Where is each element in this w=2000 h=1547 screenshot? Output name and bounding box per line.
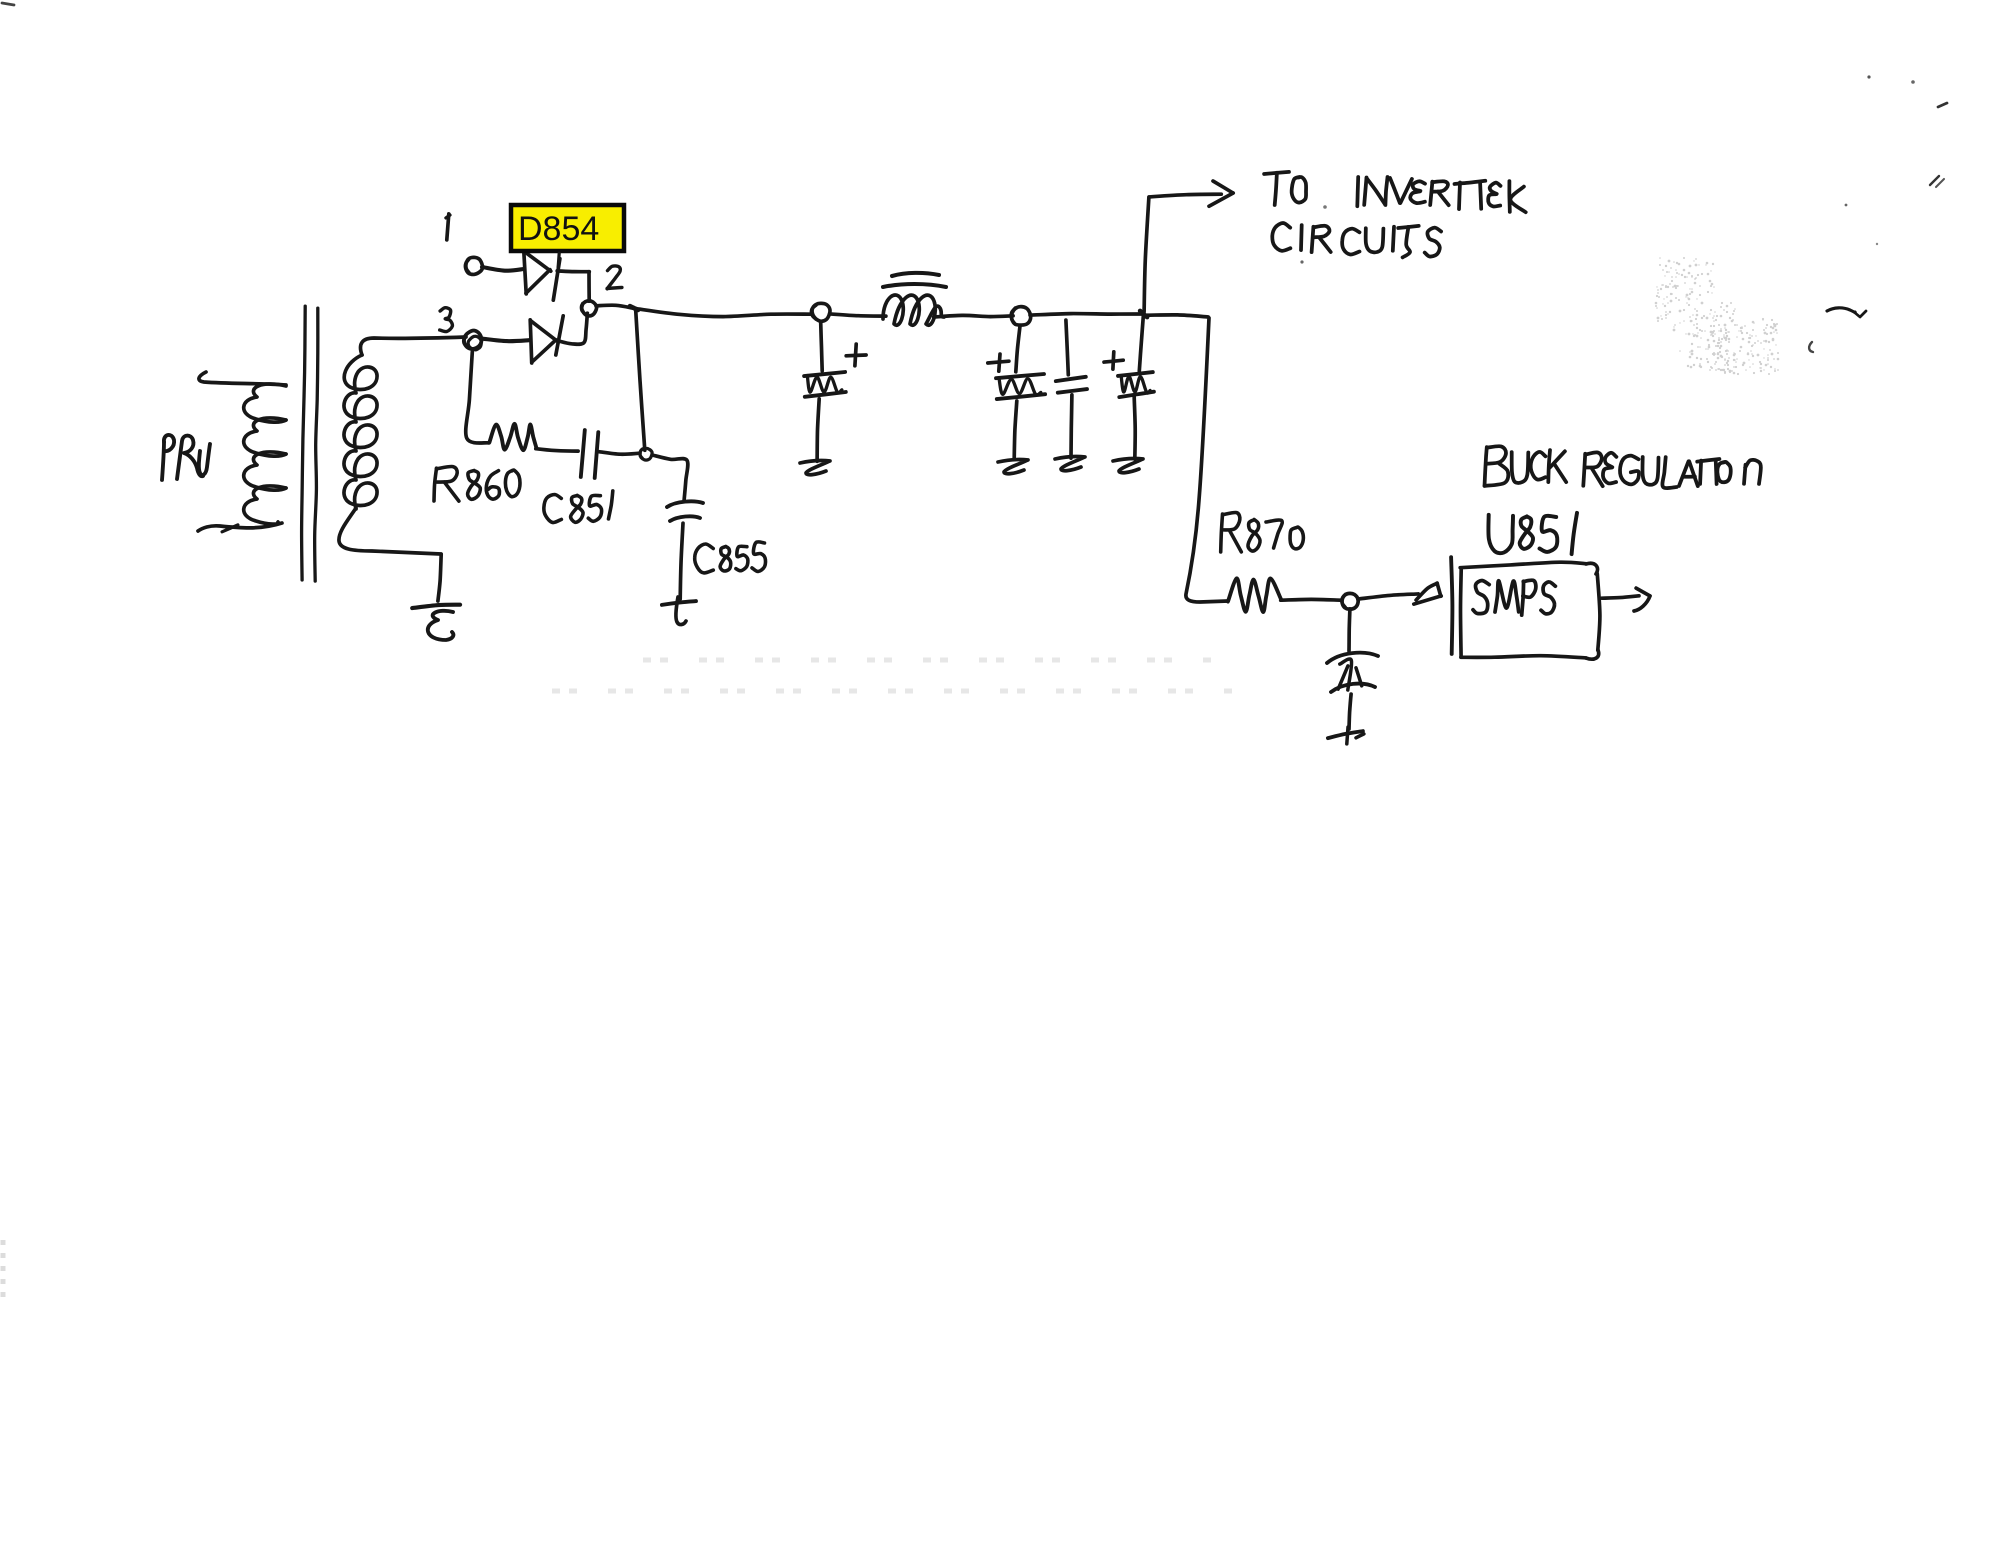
node B (C851/C855 tap)	[640, 448, 652, 460]
label D854 (highlighted)	[511, 205, 624, 251]
arrow (U851 output)	[1634, 588, 1650, 611]
ground (capacitor 3)	[1055, 457, 1085, 471]
arrow (to inverter circuits)	[1209, 181, 1233, 206]
junction E (inverter tap)	[1140, 311, 1147, 317]
ground (C855)	[662, 597, 696, 625]
wire inverter arrow horizontal	[1149, 194, 1221, 197]
wire junction E to corner	[1147, 315, 1208, 317]
wire diode lower out up to node 2	[558, 313, 588, 344]
wire capacitor 1 to ground	[817, 399, 819, 462]
wire node D down to capacitor 2	[1016, 326, 1020, 372]
wire junction E down to capacitor 4	[1139, 316, 1143, 371]
label PRI	[162, 435, 210, 480]
resistor R870	[1228, 578, 1281, 612]
ground (capacitor 2)	[998, 460, 1028, 474]
scan artifact dashed row 2	[552, 689, 1238, 694]
ground (capacitor 5)	[1328, 727, 1364, 744]
node 2 (terminal circle)	[582, 301, 597, 316]
diode D854 upper (triangle)	[524, 251, 551, 294]
wire node F to U851 arrow	[1358, 594, 1418, 599]
capacitor C855	[667, 501, 703, 521]
arrow (into U851)	[1414, 583, 1441, 604]
polarity + (capacitor 2)	[988, 354, 1009, 371]
junction A (bus tap)	[630, 306, 638, 310]
label TO INVERTER	[1264, 172, 1526, 212]
wire node C down to capacitor 1	[821, 322, 823, 371]
wire capacitor 4 to ground	[1134, 397, 1135, 459]
block U851 input bar	[1451, 557, 1452, 654]
label 2 (node 2)	[607, 266, 622, 289]
node F (U851 input)	[1342, 593, 1358, 609]
transformer primary winding	[198, 372, 286, 532]
wire node D to junction E	[1030, 314, 1143, 316]
pin label 3	[440, 308, 453, 332]
diode D854 upper (anode wire)	[482, 267, 524, 271]
wire R860 to C851	[536, 449, 578, 451]
diode D854 lower (triangle)	[530, 320, 557, 363]
transformer secondary winding	[339, 337, 466, 601]
wire node 3 down to R860	[466, 352, 489, 443]
capacitor 1 (electrolytic)	[804, 372, 846, 397]
scan artifact dashed row 1	[643, 658, 1218, 663]
wire inductor to node D	[934, 315, 1013, 317]
polarity + (capacitor 4)	[1104, 352, 1123, 369]
diode D854 lower (cathode bar)	[556, 316, 563, 355]
scan artifact speckle patch	[1655, 257, 1780, 375]
node 3 (terminal circle)	[464, 330, 482, 349]
pin label 1	[446, 214, 450, 240]
wire R870 to node F	[1281, 598, 1342, 602]
node 1 (terminal circle)	[465, 257, 482, 274]
label C855	[695, 542, 766, 573]
wire bus junction to filter node	[634, 308, 812, 316]
ground (transformer secondary)	[412, 605, 460, 640]
wire bus down to capacitor 3	[1066, 320, 1068, 375]
wire C851 to node B	[599, 452, 640, 455]
svg-text:D854: D854	[518, 210, 599, 248]
label R860	[434, 466, 520, 501]
label BUCK REGULATOR	[1485, 446, 1761, 488]
wire node B to C855	[652, 455, 688, 500]
block U851 SMPS box	[1460, 562, 1600, 659]
capacitor C851	[581, 430, 599, 478]
wire junction E up to inverter arrow	[1144, 197, 1149, 312]
label CIRCUITS	[1272, 223, 1441, 257]
leader line from D854 label	[558, 253, 559, 268]
label C851	[544, 491, 613, 523]
wire bus corner down to R870	[1186, 318, 1228, 602]
wire node C to inductor	[830, 314, 886, 316]
node C (filter input)	[812, 303, 830, 321]
wire node F down to capacitor 5	[1347, 609, 1352, 651]
ground (capacitor 4)	[1113, 459, 1143, 473]
scan artifact marks	[2, 3, 1947, 352]
ground (capacitor 1)	[800, 461, 830, 475]
wire diode upper out to node 2	[557, 271, 589, 301]
capacitor 2 (electrolytic)	[996, 374, 1045, 399]
wire C855 to ground	[680, 523, 683, 599]
polarity + (capacitor 1)	[846, 344, 866, 366]
wire node 2 to bus junction	[596, 305, 634, 308]
wire U851 output	[1602, 596, 1639, 598]
wire capacitor 3 to ground	[1069, 395, 1074, 458]
transformer core	[302, 306, 318, 581]
diode D854 lower (anode wire)	[483, 339, 529, 341]
scan artifact left edge strip	[1, 1240, 6, 1300]
inductor (filter choke)	[883, 273, 946, 325]
diode D854 upper (cathode bar)	[553, 259, 560, 301]
label SMPS	[1473, 580, 1555, 615]
resistor R860	[489, 424, 536, 450]
stray pen dots	[1300, 205, 1326, 263]
capacitor 4 (electrolytic)	[1118, 372, 1154, 397]
node D (filter mid)	[1011, 307, 1030, 326]
label R870	[1221, 512, 1304, 551]
capacitor 3 (ceramic)	[1056, 377, 1087, 393]
wire capacitor 2 to ground	[1014, 401, 1017, 459]
label U851	[1488, 513, 1577, 554]
capacitor 5 (at U851 input)	[1327, 653, 1378, 692]
wire capacitor 5 to ground	[1349, 694, 1351, 729]
wire junction A down to C851 node	[636, 310, 645, 450]
